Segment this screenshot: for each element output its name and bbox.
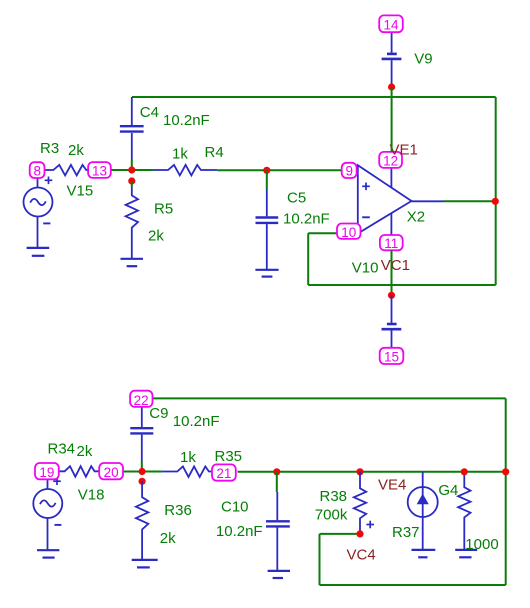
wire C4 pin to junction bbox=[131, 160, 133, 171]
ground under V15 bbox=[27, 248, 50, 256]
resistor R3 bbox=[45, 165, 89, 176]
svg-text:C9: C9 bbox=[149, 405, 168, 422]
op-amp X2 triangle bbox=[358, 165, 412, 233]
svg-text:2k: 2k bbox=[77, 443, 93, 460]
wire right vertical bbox=[505, 398, 507, 585]
svg-text:VC4: VC4 bbox=[347, 547, 376, 564]
wire right vertical (output side) bbox=[495, 97, 497, 285]
svg-text:G4: G4 bbox=[438, 482, 458, 499]
ground under V18 bbox=[37, 550, 59, 557]
capacitor C4 bbox=[120, 97, 144, 160]
wire feedback to node 10 bbox=[308, 232, 337, 234]
svg-text:19: 19 bbox=[39, 465, 54, 480]
svg-text:8: 8 bbox=[33, 163, 41, 178]
wire feedback bottom bbox=[308, 284, 496, 286]
ground under C5 bbox=[255, 270, 278, 277]
junction dot node20 bbox=[139, 468, 146, 475]
node 15 bbox=[380, 348, 404, 365]
svg-text:11: 11 bbox=[384, 236, 398, 251]
svg-text:R35: R35 bbox=[215, 448, 243, 465]
node 20 bbox=[99, 463, 123, 480]
ground under R37 bbox=[455, 550, 477, 557]
wire node 20 to junction bbox=[123, 471, 142, 473]
node 21 bbox=[212, 464, 236, 481]
wire node 11 to V10 bbox=[391, 250, 393, 295]
svg-text:VC1: VC1 bbox=[381, 257, 410, 274]
wire top horizontal (node 22 net) bbox=[151, 397, 506, 399]
wire node 13 to junction bbox=[111, 169, 132, 171]
svg-text:2k: 2k bbox=[160, 530, 176, 547]
svg-text:2k: 2k bbox=[68, 142, 84, 159]
node 14 bbox=[379, 15, 403, 32]
junction dot V9 bbox=[388, 83, 395, 90]
svg-text:10: 10 bbox=[341, 225, 356, 240]
svg-text:VE1: VE1 bbox=[390, 141, 418, 158]
wire loop left vertical bbox=[319, 534, 321, 585]
svg-text:R37: R37 bbox=[392, 524, 420, 541]
node 12 bbox=[379, 152, 402, 169]
V15 minus sign bbox=[43, 222, 50, 224]
svg-text:1k: 1k bbox=[180, 449, 196, 466]
svg-text:9: 9 bbox=[345, 163, 353, 178]
V18 plus sign bbox=[53, 477, 61, 485]
capacitor C5 bbox=[256, 190, 279, 269]
node 11 pin bbox=[390, 213, 392, 235]
capacitor C9 bbox=[130, 407, 153, 462]
node 19 bbox=[35, 463, 59, 480]
svg-text:10.2nF: 10.2nF bbox=[163, 112, 210, 129]
wire feedback left vertical bbox=[307, 233, 309, 285]
junction dot R38 bottom bbox=[356, 530, 363, 537]
svg-text:X2: X2 bbox=[407, 208, 425, 225]
battery V10 bbox=[382, 295, 402, 348]
ground under R5 bbox=[121, 259, 144, 266]
svg-text:R4: R4 bbox=[205, 144, 224, 161]
svg-text:20: 20 bbox=[104, 465, 119, 480]
node 8 bbox=[30, 162, 45, 178]
wire junction to R4 bbox=[132, 169, 153, 171]
svg-text:21: 21 bbox=[216, 466, 231, 481]
svg-text:V10: V10 bbox=[352, 259, 379, 276]
resistor R38 bbox=[354, 472, 366, 534]
wire node 21 to C10 junction and onward bbox=[238, 471, 506, 473]
ground under R36 bbox=[132, 560, 158, 568]
wire C10 stub bbox=[276, 472, 278, 492]
svg-text:R34: R34 bbox=[48, 440, 76, 457]
junction dot R37 top bbox=[461, 468, 468, 475]
junction dot R36 top bbox=[139, 478, 146, 485]
resistor R36 bbox=[136, 481, 148, 559]
junction dot right corner bbox=[502, 468, 509, 475]
G4 current source bbox=[408, 472, 438, 550]
battery V9 bbox=[382, 33, 402, 87]
svg-text:R5: R5 bbox=[154, 201, 173, 218]
svg-text:R38: R38 bbox=[320, 488, 348, 505]
V15 plus sign bbox=[45, 177, 53, 185]
junction dot C10 bbox=[273, 468, 280, 475]
svg-text:15: 15 bbox=[384, 350, 399, 365]
svg-text:10.2nF: 10.2nF bbox=[283, 210, 330, 227]
V18 minus sign bbox=[55, 524, 62, 526]
voltage source V15 body bbox=[24, 178, 53, 248]
resistor R34 bbox=[60, 466, 100, 477]
svg-text:13: 13 bbox=[92, 163, 107, 178]
resistor R37 bbox=[458, 472, 470, 550]
ground under G4 bbox=[412, 550, 436, 557]
wire top horizontal net bbox=[132, 96, 496, 98]
resistor R35 bbox=[162, 466, 212, 477]
op-amp output wire blue bbox=[412, 200, 444, 202]
junction dot C5 bbox=[263, 167, 270, 174]
wire C9 to junction bbox=[141, 462, 143, 472]
junction dot output bbox=[492, 198, 499, 205]
node 13 bbox=[88, 162, 111, 178]
node 22 bbox=[130, 391, 152, 408]
svg-text:V15: V15 bbox=[67, 182, 94, 199]
wire loop to R38 bottom bbox=[320, 533, 361, 535]
svg-text:V18: V18 bbox=[78, 486, 105, 503]
svg-text:10.2nF: 10.2nF bbox=[216, 523, 263, 540]
wire junction to R5 bbox=[131, 181, 133, 187]
svg-text:14: 14 bbox=[383, 18, 399, 33]
ground under C10 bbox=[268, 571, 290, 578]
svg-text:C10: C10 bbox=[221, 498, 249, 515]
wire junction to R35 bbox=[142, 471, 162, 473]
wire bottom horizontal bbox=[320, 584, 506, 586]
svg-text:R3: R3 bbox=[40, 140, 59, 157]
junction dot R5 top bbox=[128, 177, 135, 184]
svg-text:V9: V9 bbox=[414, 50, 432, 67]
node 9 bbox=[342, 163, 357, 179]
svg-text:C5: C5 bbox=[287, 189, 306, 206]
R38 plus sign bbox=[366, 521, 374, 529]
wire V9 to node 12 bbox=[391, 87, 393, 152]
svg-text:2k: 2k bbox=[148, 227, 164, 244]
svg-text:700k: 700k bbox=[315, 506, 348, 523]
junction dot V10 bbox=[388, 292, 395, 299]
svg-text:10.2nF: 10.2nF bbox=[173, 413, 220, 430]
svg-text:R36: R36 bbox=[164, 502, 192, 519]
resistor R4 bbox=[153, 165, 217, 176]
resistor R5 bbox=[126, 187, 138, 258]
op-amp plus bbox=[362, 183, 370, 191]
wire R4 to C5 junction bbox=[217, 169, 267, 171]
node 12 pin bbox=[390, 168, 392, 188]
svg-text:1k: 1k bbox=[172, 145, 188, 162]
wire C5 junction to node 9 bbox=[267, 169, 342, 171]
capacitor C10 bbox=[266, 492, 290, 570]
svg-text:C4: C4 bbox=[140, 104, 159, 121]
node 11 bbox=[380, 235, 403, 251]
node 10 bbox=[337, 224, 361, 240]
junction dot node13 bbox=[128, 166, 135, 173]
svg-text:1000: 1000 bbox=[465, 536, 498, 553]
junction dot R38 top bbox=[356, 468, 363, 475]
wire C5 stub bbox=[266, 170, 268, 190]
op-amp minus bbox=[362, 216, 370, 218]
wire output to right vertical bbox=[444, 200, 496, 202]
svg-text:VE4: VE4 bbox=[378, 477, 406, 494]
svg-text:22: 22 bbox=[134, 393, 149, 408]
voltage source V18 body bbox=[33, 480, 62, 550]
